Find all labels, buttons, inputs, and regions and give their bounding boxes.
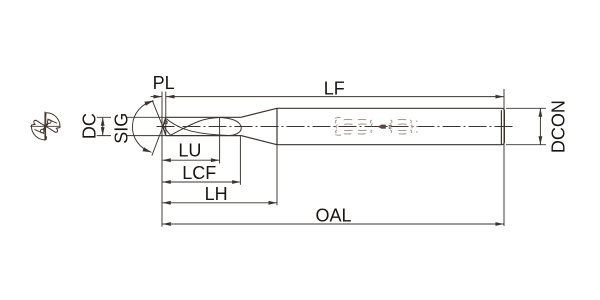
- end-view icon corner marks: [44, 113, 46, 116]
- extension line shank end x=504: [503, 89, 505, 226]
- shank end chamfer edge: [500, 110, 502, 145]
- svg-text:LU: LU: [178, 140, 201, 160]
- extension line LH end: [276, 145, 278, 206]
- SIG arc: [132, 101, 153, 152]
- svg-text:DCON: DCON: [549, 100, 569, 153]
- end-view icon chisel edge: [44, 123, 48, 129]
- centerline axis: [157, 126, 514, 128]
- svg-text:PL: PL: [153, 73, 175, 93]
- flute helix curves: [163, 118, 241, 136]
- end-view icon land upper-right: [46, 113, 60, 132]
- svg-text:DC: DC: [80, 113, 100, 139]
- svg-text:LCF: LCF: [182, 163, 216, 183]
- SIG arc arrow bottom: [142, 147, 151, 152]
- PL dimension: [151, 95, 163, 99]
- OAL dimension: [162, 222, 504, 226]
- DCON tick bottom: [506, 144, 546, 146]
- svg-text:SIG: SIG: [111, 113, 131, 144]
- drill body outline: [163, 108, 505, 145]
- shank left edge: [276, 108, 278, 144]
- end-view icon land lower-left: [31, 120, 45, 139]
- shank break center mark: [377, 125, 392, 129]
- DC extension line top: [97, 116, 166, 118]
- extension line LU end: [219, 118, 221, 164]
- point flank lower: [163, 127, 166, 136]
- end-view icon crosshair: [30, 112, 60, 141]
- svg-text:OAL: OAL: [315, 205, 351, 225]
- LU dimension: [162, 158, 219, 162]
- SIG angle lines through tip: [152, 100, 165, 155]
- body top edge + taper: [166, 108, 277, 117]
- extension line at point end x=165.8: [165, 92, 167, 136]
- extension line LCF end: [239, 136, 241, 185]
- extension line at tip apex x=162: [161, 92, 163, 227]
- point flank upper: [163, 117, 166, 126]
- svg-text:LH: LH: [205, 184, 228, 204]
- SIG arc arrow top: [144, 101, 153, 106]
- DC dimension arrows: [101, 117, 105, 135]
- LCF dimension: [162, 180, 240, 184]
- svg-text:LF: LF: [324, 78, 345, 98]
- DCON dimension arrows: [539, 108, 543, 144]
- LF dimension: [166, 95, 504, 99]
- body bottom edge + taper: [166, 136, 277, 145]
- LH dimension: [162, 201, 277, 205]
- shank outline: [277, 108, 504, 144]
- DC extension line bottom: [97, 135, 166, 137]
- shank break marks: [335, 118, 418, 136]
- DCON tick top: [506, 107, 546, 109]
- label SIG white backing: [111, 109, 127, 146]
